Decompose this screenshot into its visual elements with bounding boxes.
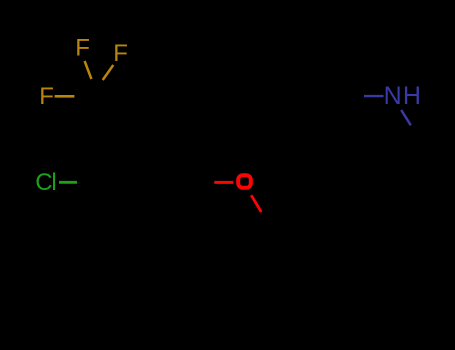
bond stub C-F1 [85, 61, 92, 79]
bond stub C-Cl [59, 181, 77, 184]
svg-text:F: F [75, 35, 90, 62]
svg-text:NH: NH [384, 82, 423, 110]
bond stub C-F2 [103, 65, 114, 80]
bond stub ring-O (left horizontal) [214, 181, 233, 184]
svg-text:Cl: Cl [35, 169, 55, 196]
bond stub N-CH2 (down-right diagonal) [401, 110, 411, 125]
atom O label (ether oxygen), drawn as bold rounded ring [238, 175, 251, 188]
bond stub CH2-N (left horizontal) [364, 95, 384, 97]
svg-text:F: F [39, 83, 54, 110]
svg-text:F: F [113, 40, 128, 67]
bond stub O-CH (down-right diagonal) [251, 195, 261, 212]
bond stub C-F3 [55, 95, 75, 98]
